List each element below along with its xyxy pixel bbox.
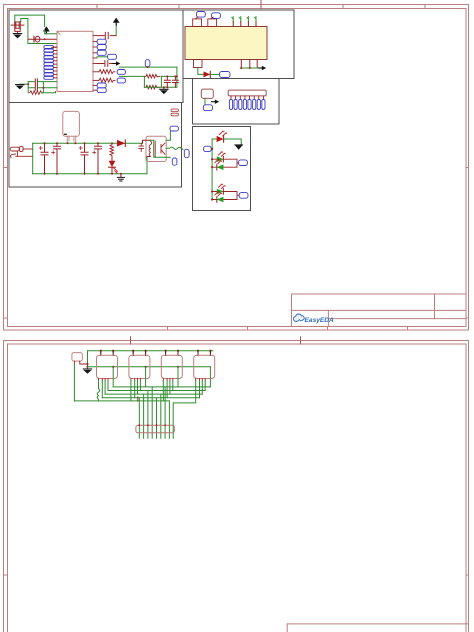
wire VCC to MCU pin1 <box>45 30 57 34</box>
wire DS1 pin1 drop with squiggle <box>97 381 100 401</box>
wire bundle p3 <box>147 391 149 439</box>
wire bus B <box>88 366 211 368</box>
sheet2 title block <box>287 624 468 632</box>
wire bundle p2 <box>143 394 145 438</box>
display DS1 top pins <box>101 351 113 356</box>
display DS3 body <box>161 355 182 378</box>
transformer T1 body <box>63 111 80 136</box>
wire U3 down <box>204 98 206 104</box>
LED D8 arrows <box>215 192 221 196</box>
net label col1 c <box>97 50 106 55</box>
display DS4 top pins <box>198 351 210 356</box>
portal arrow net1 <box>259 66 267 70</box>
net label col2 <box>108 54 117 59</box>
wire label row <box>52 46 57 48</box>
wire opto out mid wavy <box>166 147 183 150</box>
junction dots pair1 <box>211 158 213 160</box>
wire P1 b <box>16 155 33 157</box>
capacitor C9 <box>54 143 61 174</box>
pin ticks top right green <box>232 17 256 22</box>
block B1 MCU section box <box>9 10 183 103</box>
display DS1 body <box>97 355 118 378</box>
wire bypass rowB <box>28 87 57 89</box>
capacitor C12 small <box>139 143 144 151</box>
capacitor C4 <box>97 32 116 38</box>
wire DS1 inner drop <box>112 367 114 387</box>
wire loop to caps <box>144 67 177 87</box>
component U5 body <box>72 353 82 362</box>
wire bus A <box>88 350 214 352</box>
wire bypass rowA <box>28 81 57 83</box>
svg-text:EasyEDA: EasyEDA <box>305 317 335 324</box>
junction dots bottom bus <box>44 173 122 175</box>
pin tick top2 <box>211 17 214 19</box>
block B5 LED section box <box>193 127 251 211</box>
pin1 marker <box>58 32 61 35</box>
LCD U2 body <box>185 27 267 60</box>
wire gnd stub <box>163 87 165 89</box>
op MCU U1 body <box>57 31 93 91</box>
connector P1 pin a <box>10 147 19 151</box>
wire collector h1 <box>113 386 210 388</box>
display DS2 body <box>129 355 150 378</box>
LED D6 arrows <box>215 159 221 163</box>
resistor R4 top of loop <box>144 74 159 78</box>
display DS4 body <box>194 355 215 378</box>
net label opto top <box>170 126 178 131</box>
wire crystal inner loop <box>21 19 28 44</box>
net label top2 <box>212 13 221 19</box>
plus C11 <box>93 151 96 154</box>
net label LED left <box>204 146 212 151</box>
junction dots <box>240 67 242 69</box>
net label R2 <box>117 78 125 83</box>
net label pair1 <box>239 160 248 166</box>
transformer T1 pins <box>67 136 76 143</box>
plus C10 <box>79 147 82 150</box>
display DS3 top pins <box>166 351 178 356</box>
opto U4 body <box>146 136 166 161</box>
wire DS2 drops <box>131 381 141 401</box>
opto coil left <box>149 141 152 156</box>
wire P1 link <box>16 151 18 156</box>
LED D7 arrows <box>219 184 225 188</box>
net label col1 e <box>97 88 106 93</box>
pin tick top1 <box>196 17 199 19</box>
wire collector h2 <box>108 390 205 392</box>
net label top1 <box>197 12 206 18</box>
pin box top2 <box>208 19 217 27</box>
pin box top1 <box>193 19 202 27</box>
pin U5 right <box>80 361 88 364</box>
wire gnd stub power <box>120 174 122 177</box>
ground sheet2 <box>83 369 91 374</box>
wire row col2 <box>97 56 108 58</box>
junction dots s2 left <box>86 363 88 365</box>
capacitor C11 <box>95 143 102 174</box>
resistor R6 vertical <box>110 143 114 157</box>
component U3 body <box>201 89 213 98</box>
wire diode to label <box>211 73 220 75</box>
wire long net2 <box>120 75 145 77</box>
wire gnd stub s2 <box>87 364 89 369</box>
resistor R5 bottom of loop <box>144 85 159 89</box>
LED D2 arrows <box>114 168 118 173</box>
LED D8 green <box>217 197 224 203</box>
wire bus A left drop <box>87 351 89 367</box>
capacitor C8 <box>41 143 48 174</box>
net label opto mid <box>184 149 189 157</box>
wire rail left vertical <box>32 143 34 174</box>
crystal Y1 <box>11 22 24 32</box>
LED D5 arrows <box>219 152 225 156</box>
wire bundle p7 <box>164 387 166 438</box>
wire green pass through <box>150 140 170 158</box>
LED pair2 wires <box>212 192 237 200</box>
wire crystal to gnd <box>17 31 19 33</box>
block B2 LCD section box <box>183 10 294 79</box>
sheet2 right zone tick <box>466 574 469 576</box>
wire bundle p6 <box>160 394 162 438</box>
power flag VCC2 <box>113 18 120 25</box>
wire bundle p1 <box>138 398 140 439</box>
wire P1 a <box>23 148 33 150</box>
wire loop verticals <box>144 76 161 87</box>
transformer dot <box>64 134 67 135</box>
resistor R2 <box>99 78 115 82</box>
wire DS3 inner drop <box>177 367 179 387</box>
resistor R3 <box>30 91 44 95</box>
net label stack left pins <box>44 46 54 80</box>
wire bottom bus s2 <box>74 400 169 402</box>
pin stubs MCU right <box>93 36 99 91</box>
net label col1 b <box>97 45 106 50</box>
LED D4 arrows <box>220 131 226 136</box>
display top pin nubs <box>101 351 211 353</box>
wire pair2 out <box>237 194 239 196</box>
resistor R1 <box>99 70 115 74</box>
wire bus to opto top <box>143 140 151 143</box>
net label vertical <box>145 60 150 67</box>
display DS2 top pins <box>133 351 145 356</box>
net label pair2 <box>239 193 248 199</box>
capacitor C1 polarized <box>28 38 57 40</box>
wire rail top bus <box>33 142 143 144</box>
LED D6 green <box>217 164 224 170</box>
wire pins join <box>240 67 259 69</box>
EasyEDA logo <box>294 314 335 324</box>
opto transistor <box>161 143 165 154</box>
wire gnd branch <box>20 83 28 85</box>
net label R1 <box>117 70 125 75</box>
pin tips red <box>233 22 256 27</box>
title block <box>292 294 467 327</box>
wire rail bottom bus <box>33 173 147 175</box>
ground crystal <box>13 34 21 39</box>
red tick h4 left <box>137 397 139 401</box>
junction LED label <box>211 148 213 150</box>
connector J1 pins <box>229 96 265 110</box>
block B4 power section box <box>9 103 182 188</box>
wire D4 out <box>224 139 241 145</box>
wire DS4 drops <box>200 381 206 398</box>
sheet2 inner border <box>8 344 467 632</box>
wire opto out top <box>166 131 170 141</box>
sheet1 top zone ticks <box>260 1 262 9</box>
junction dots caps <box>166 75 168 77</box>
ref mark a <box>171 109 178 112</box>
connector P1 pin b <box>10 154 15 158</box>
diode D3 rail <box>117 140 125 147</box>
junction dots bus B <box>112 366 179 368</box>
net label opto bottom <box>172 158 177 165</box>
ground filter <box>160 89 168 94</box>
capacitor C10 <box>81 143 88 174</box>
wire DS1 drops <box>102 381 108 398</box>
opto core bar <box>154 141 156 157</box>
LED D5 green <box>217 156 224 162</box>
junction dots pair2 <box>211 190 213 192</box>
net label U3 <box>203 105 212 111</box>
diode D1 <box>204 71 211 77</box>
capacitor C7 <box>173 76 179 87</box>
wire to diode <box>198 68 203 75</box>
junction dots top bus <box>44 142 114 144</box>
junction dots net <box>147 66 149 68</box>
wire VCC loop top <box>15 15 45 26</box>
sheet1 right zone ticks <box>466 168 469 319</box>
capacitor C3 <box>35 85 37 90</box>
capacitor C2 <box>35 79 37 84</box>
plus C9 <box>52 151 55 154</box>
portal arrow out <box>113 61 121 65</box>
power flag VCC1 <box>43 26 50 33</box>
display bottom pin stubs <box>99 379 206 381</box>
block B3 connector section box <box>193 79 280 125</box>
sheet2 left zone tick <box>4 574 8 576</box>
portal arrow U3 <box>212 100 220 104</box>
wire DS4 pin1 route <box>173 381 196 439</box>
sheet1 left zone ticks <box>4 168 8 319</box>
wire LED rail vertical <box>211 139 213 200</box>
sheet1 inner border <box>8 9 467 327</box>
sheet2 outer border <box>4 341 469 632</box>
wire LED top row <box>212 138 216 140</box>
net label D1 <box>220 72 230 78</box>
junction dot <box>44 38 46 40</box>
pin U5 left <box>73 361 75 364</box>
wire rail right vertical <box>146 157 148 174</box>
wire resistor right <box>41 82 55 93</box>
connector J2 body <box>136 425 174 433</box>
ground power (earth bars) <box>117 177 124 181</box>
net label col1 a <box>97 39 106 44</box>
pin box bottom-left <box>194 60 203 68</box>
pin stubs MCU left <box>54 47 58 78</box>
wire MCU pin3 <box>28 43 57 45</box>
sheet2 top zone ticks <box>131 337 301 344</box>
net label col1 d <box>97 83 106 88</box>
wire collector h3 <box>105 393 202 395</box>
ground bypass <box>16 85 24 90</box>
sheet1 bottom zone ticks <box>168 327 408 331</box>
wire DS3 drops <box>163 381 173 401</box>
wire U5 left down <box>73 364 75 401</box>
wire bundle p4 <box>151 387 153 438</box>
LED D2 <box>109 161 116 167</box>
capacitor C6 <box>164 76 170 87</box>
junction dots bus A <box>100 350 212 352</box>
connector J1 body <box>228 90 266 96</box>
plus C8 <box>39 147 42 150</box>
wire bus B right drop <box>209 367 211 387</box>
wire bundle p8 <box>168 401 170 438</box>
pin stubs bottom-right <box>241 60 257 69</box>
capacitor C5 <box>97 61 112 67</box>
wire collector h4 <box>102 397 199 399</box>
LED D4 <box>217 136 224 142</box>
ref mark b <box>171 113 178 116</box>
wire to VCC <box>115 25 117 36</box>
wire DS2 inner drop <box>145 367 147 387</box>
LED pair1 wires <box>212 159 237 167</box>
LED D7 green <box>217 189 224 195</box>
wire bus to opto bottom <box>147 156 150 158</box>
sheet1 outer border <box>4 5 469 331</box>
junction dots J2 top <box>138 424 166 426</box>
portal arrow down LED <box>235 145 243 150</box>
wire bundle p5 <box>156 398 158 439</box>
wire pair1 out <box>237 162 238 164</box>
wire long net1 <box>120 66 177 68</box>
wire bypass left vertical <box>27 82 29 93</box>
junction dots <box>27 83 29 85</box>
